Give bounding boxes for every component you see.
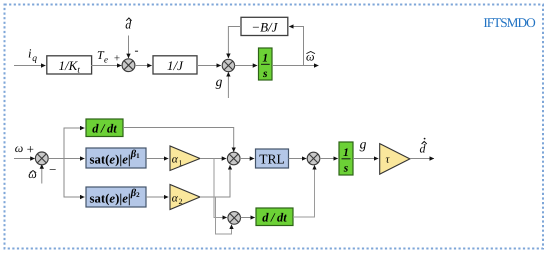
wire sat1 to alpha1 xyxy=(146,158,168,160)
svg-text:d: d xyxy=(125,17,132,31)
wire sat2 to alpha2 xyxy=(146,196,168,198)
svg-text:−: − xyxy=(49,162,56,177)
block -B/J xyxy=(241,17,288,35)
svg-text:1/Kt: 1/Kt xyxy=(59,58,81,75)
label iq xyxy=(28,47,37,64)
svg-text:g: g xyxy=(360,137,367,152)
block 1/J xyxy=(153,56,197,74)
wire M3 to d/dt bottom xyxy=(241,217,255,219)
wire TRL to M2 xyxy=(289,158,307,160)
wire g into S2 xyxy=(227,72,229,98)
svg-text:ω: ω xyxy=(15,141,23,155)
wire error branch up to d/dt xyxy=(64,128,85,159)
svg-text:ω: ω xyxy=(28,167,36,181)
svg-text:1: 1 xyxy=(262,53,268,65)
wire 1/J to S2 xyxy=(197,65,221,67)
wire error to sat1 xyxy=(48,158,84,160)
svg-text:d / dt: d / dt xyxy=(92,122,117,136)
label Te xyxy=(97,48,108,65)
block TRL xyxy=(256,149,289,168)
wire d/dt to M1 top xyxy=(123,128,234,152)
label d-hat xyxy=(125,17,132,31)
wire alpha2 to M1 bottom xyxy=(200,165,230,197)
wire B/J to S2 xyxy=(228,27,241,59)
wire alpha1 branch down to M3 xyxy=(214,159,227,218)
wire S1 to 1/J xyxy=(135,65,152,67)
block d/dt bottom xyxy=(256,208,293,226)
label omega-hat output xyxy=(306,49,315,63)
multiplier M2 xyxy=(307,152,320,165)
wire g to tau xyxy=(353,158,378,160)
wire output d-hat-dot xyxy=(410,158,434,160)
wire M2 to integrator bottom xyxy=(320,158,338,160)
gain alpha2 xyxy=(170,185,200,210)
block integrator 1/s top xyxy=(259,48,273,80)
gain tau xyxy=(380,144,410,175)
block sat(e)|e|^beta2 xyxy=(86,187,146,207)
svg-text:1: 1 xyxy=(343,147,349,159)
wire d/dt bottom to M2 xyxy=(293,165,315,217)
svg-text:s: s xyxy=(343,163,349,175)
svg-text:1: 1 xyxy=(179,158,183,167)
summing junction S1 xyxy=(122,59,135,72)
svg-text:+: + xyxy=(27,141,34,156)
wire d-hat into S1 xyxy=(128,36,130,59)
wire iq input xyxy=(14,65,46,67)
label omega-hat feedback xyxy=(28,167,36,181)
svg-text:d: d xyxy=(420,142,427,156)
wire M1 to TRL xyxy=(240,158,254,160)
block 1/Kt xyxy=(47,56,92,75)
wire Te xyxy=(91,65,121,67)
wire omega-hat into S3 xyxy=(41,164,43,183)
svg-text:TRL: TRL xyxy=(259,152,285,167)
wire feedback tap to B/J block xyxy=(289,27,303,66)
svg-text:-: - xyxy=(135,43,139,57)
block integrator 1/s bottom xyxy=(339,142,353,175)
svg-text:+: + xyxy=(114,53,120,65)
svg-text:s: s xyxy=(262,68,268,80)
wire omega-hat output xyxy=(272,65,319,67)
summing junction S2 xyxy=(222,59,234,71)
gain alpha1 xyxy=(170,146,200,171)
wire error branch down to sat2 xyxy=(64,159,85,198)
svg-text:IFTSMDO: IFTSMDO xyxy=(483,15,536,30)
summing junction S3 error xyxy=(35,152,48,165)
wire alpha2 branch to M3 bottom xyxy=(216,197,232,234)
label d-hat-dot xyxy=(420,138,427,156)
svg-text:q: q xyxy=(32,54,37,64)
svg-text:−B/J: −B/J xyxy=(251,20,278,35)
svg-text:d / dt: d / dt xyxy=(262,211,287,225)
svg-text:2: 2 xyxy=(179,197,183,206)
multiplier M3 xyxy=(228,212,241,225)
block d/dt top xyxy=(86,119,123,137)
wire S2 to integrator xyxy=(235,65,258,67)
wire omega input xyxy=(14,158,35,160)
multiplier M1 xyxy=(227,152,240,165)
svg-text:e: e xyxy=(104,55,108,65)
svg-text:1/J: 1/J xyxy=(167,58,184,73)
svg-text:g: g xyxy=(216,74,223,89)
block sat(e)|e|^beta1 xyxy=(86,148,146,168)
wire alpha1 to M1 xyxy=(200,158,226,160)
